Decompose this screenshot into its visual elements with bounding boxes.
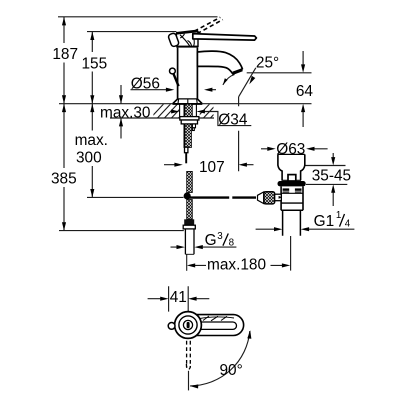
wire water stream arc: [223, 75, 235, 85]
lever texture: [203, 316, 227, 321]
svg-text:8: 8: [229, 238, 235, 249]
ball joint cone: [258, 192, 264, 204]
svg-text:4: 4: [345, 218, 351, 229]
svg-text:max.180: max.180: [207, 257, 266, 274]
nut steps: [192, 124, 195, 128]
svg-text:35-45: 35-45: [312, 168, 351, 185]
pull rod upper: [174, 74, 179, 86]
overflow slots: [283, 188, 290, 190]
wire dim line 107: [164, 164, 254, 166]
svg-text:3: 3: [217, 231, 223, 242]
wire vertical dim line x64 (187/385): [63, 17, 65, 231]
wire vertical dim line x121 (max30): [120, 85, 122, 139]
handle block top bar: [176, 30, 198, 35]
gasket: [278, 181, 306, 186]
wire 41 extension lines: [169, 286, 189, 313]
aerator face: [233, 68, 243, 75]
wire reference line 155: [87, 31, 176, 33]
wire max300 bottom reference line: [87, 196, 184, 198]
mounting nut: [181, 120, 197, 124]
G3/8 connector nut: [184, 219, 194, 225]
base plinth: [173, 99, 202, 104]
wire dim line G3/8: [171, 246, 237, 248]
svg-text:1: 1: [336, 210, 341, 221]
lever raised dashed: [194, 17, 223, 33]
drain body lines: [281, 192, 303, 194]
hatch left of faucet: [150, 103, 225, 119]
lever slot mark: [187, 322, 190, 328]
knurled nut: [264, 192, 275, 204]
rod lower: [185, 153, 187, 164]
lever top view: [196, 315, 244, 336]
spout: [197, 51, 242, 74]
wire extension line spout outlet x238.6: [238, 97, 240, 172]
svg-text:G: G: [205, 232, 217, 249]
wire 25/64 reference line: [247, 72, 312, 74]
fraction slashes: [223, 214, 345, 246]
wire counter top line: [59, 103, 312, 105]
body ring circle: [179, 316, 197, 334]
rod coupling: [185, 147, 188, 153]
svg-text:max.30: max.30: [100, 105, 150, 122]
joint pin: [275, 194, 282, 201]
body outer circle: [175, 312, 202, 339]
rotated lever dashed: [186, 341, 190, 369]
arrowheads: [62, 17, 335, 388]
cartridge circle: [183, 320, 192, 329]
plug pin: [288, 175, 296, 181]
drain flange line: [282, 179, 302, 181]
svg-text:max.: max.: [75, 132, 108, 149]
pull rod line in shank: [183, 104, 185, 147]
drain cup: [278, 153, 305, 155]
pull rod knob: [170, 68, 176, 74]
wire dim line 41: [148, 298, 210, 300]
wire 90 degree arc: [190, 331, 250, 386]
threaded shank: [184, 104, 192, 116]
wire dim line Ø63: [261, 148, 328, 150]
pull rod knob top view: [168, 323, 175, 330]
horseshoe washer: [180, 117, 199, 120]
svg-text:64: 64: [296, 83, 314, 100]
wire dim line max.180: [195, 264, 283, 266]
lever arm: [193, 34, 257, 41]
svg-text:155: 155: [81, 55, 107, 72]
wire 64 dim arrows shafts: [302, 51, 304, 127]
svg-text:107: 107: [199, 159, 225, 176]
wire 385 bottom reference line: [59, 230, 184, 232]
svg-text:G1: G1: [314, 213, 335, 230]
svg-text:25°: 25°: [256, 54, 279, 71]
wire dim line Ø56: [131, 89, 217, 91]
wire 35-45 extension lines: [305, 166, 347, 185]
faucet body: [178, 48, 198, 99]
wire 35-45 arrow shafts: [332, 153, 334, 206]
wire extension line drain center: [290, 236, 292, 271]
handle inner detail: [180, 34, 194, 46]
G3/8 connector collar: [183, 225, 195, 229]
braided hose lower: [187, 200, 193, 220]
wire vertical dim line x92 (155/max300): [91, 32, 93, 198]
svg-text:Ø34: Ø34: [218, 112, 248, 129]
braided hose upper: [187, 171, 193, 192]
svg-text:300: 300: [76, 149, 102, 166]
wire top reference line 187: [58, 16, 218, 18]
wire dim line G1 1/4: [256, 228, 355, 230]
lever slot: [199, 322, 237, 329]
handle block edges: [176, 31, 198, 48]
handle tip: [168, 33, 180, 48]
wire 25 degree slant line: [239, 68, 256, 97]
wire bottom centerline: [188, 371, 190, 391]
svg-text:Ø56: Ø56: [131, 76, 160, 93]
tailpipe: [283, 210, 301, 236]
hole walls: [180, 104, 197, 116]
wire leader Ø34: [204, 112, 252, 126]
drain body: [281, 186, 303, 210]
supply pipe: [185, 229, 194, 254]
svg-text:187: 187: [52, 46, 78, 63]
svg-text:90°: 90°: [220, 362, 243, 379]
handle block bottom bar: [176, 46, 198, 48]
junction dot: [184, 192, 191, 199]
pipe extension line: [186, 254, 188, 270]
svg-text:41: 41: [170, 289, 187, 306]
svg-text:Ø63: Ø63: [276, 141, 305, 158]
wire counter bottom line: [110, 117, 214, 119]
svg-text:385: 385: [51, 171, 77, 188]
pop-up rod to drain: [187, 196, 256, 198]
body joint line: [178, 98, 198, 100]
